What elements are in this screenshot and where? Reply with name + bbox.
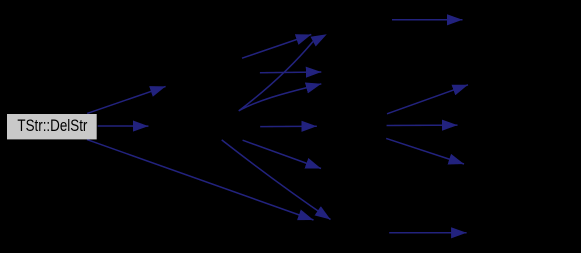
svg-text:TStr::DelStr: TStr::DelStr bbox=[17, 116, 87, 135]
